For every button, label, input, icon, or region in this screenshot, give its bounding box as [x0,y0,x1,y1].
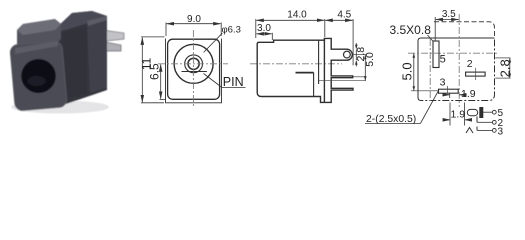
svg-text:3: 3 [440,77,446,89]
side view contact bar [296,72,314,74]
bottom view pin 2 pad [466,72,486,76]
dim 2.8 right [495,58,511,78]
bottom view centerlines [408,14,497,107]
svg-text:1.9: 1.9 [451,108,466,120]
photo: jack body block [57,11,107,104]
svg-text:3.5: 3.5 [442,9,456,20]
dim 3.5 top [435,17,458,41]
front view center pin circle [188,58,199,69]
front view contact chord [182,71,207,73]
dim 1.9 second [444,103,472,126]
dim 14.0 [256,19,325,38]
side view flange inner line [323,38,325,102]
front view group [166,39,222,103]
svg-text:5: 5 [440,53,446,65]
svg-text:3: 3 [498,126,504,137]
pin 3 label and leader [447,86,449,93]
terminal 5 callout [467,108,496,118]
dim 6.5 [160,64,167,99]
svg-text:4.5: 4.5 [337,10,351,21]
photo: jack front face [10,41,68,111]
terminal 3 callout [466,127,496,134]
dim 5.0 left [411,53,439,91]
svg-text:2.8: 2.8 [498,59,513,77]
photo: jack body top face [57,11,107,31]
svg-text:5.0: 5.0 [400,62,415,80]
bottom view square [418,38,495,101]
svg-text:3.5X0.8: 3.5X0.8 [390,23,432,37]
front view flange rounded square [168,39,220,99]
bottom view pin 3 pad [439,89,459,93]
dim 11 [141,37,165,103]
svg-text:2: 2 [467,58,473,70]
side view tab hole [344,51,351,58]
dim 4.5 [325,19,353,65]
svg-text:9.0: 9.0 [187,14,201,25]
PIN label with box leader [204,74,246,88]
dim 3.0 [257,33,273,40]
photo: collar top face [17,19,61,35]
side view inner wall [318,40,320,84]
dim 2.8 side [355,43,358,67]
photo: jack right side shading [61,27,87,99]
front view middle circle [185,55,203,73]
photo: jack hole [21,59,56,93]
svg-text:5.0: 5.0 [364,52,376,67]
photo: front face top band [15,41,58,54]
front view outer square [166,39,222,103]
bottom view dashed tab outline [434,22,495,36]
photo: jack pins [106,31,124,42]
dim 1.9 first [443,93,466,98]
pin 2 label and leader [475,68,477,80]
svg-text:1.9: 1.9 [461,88,476,100]
svg-text:6.5: 6.5 [148,63,162,80]
photo: jack collar block [17,19,61,46]
side view thin extension of pins [319,55,367,81]
svg-text:14.0: 14.0 [287,10,307,21]
dim 9.0 [166,23,221,37]
photo: DC jack shadow [11,101,109,114]
dim 5.0 side [364,55,367,81]
side view centerline [250,63,342,65]
front view outer circle [174,44,213,83]
front view centerlines [158,30,228,106]
photo: jack rear flange [87,16,107,93]
dim phi6.3 leader [204,33,223,52]
svg-text:φ6.3: φ6.3 [222,25,241,36]
terminal 2 callout [477,117,496,125]
side view body outline [257,38,353,102]
side view inner step [313,73,315,97]
svg-text:3.0: 3.0 [257,23,271,34]
svg-text:PIN: PIN [223,75,244,89]
bottom view slot 3.5x0.8 [433,41,439,68]
